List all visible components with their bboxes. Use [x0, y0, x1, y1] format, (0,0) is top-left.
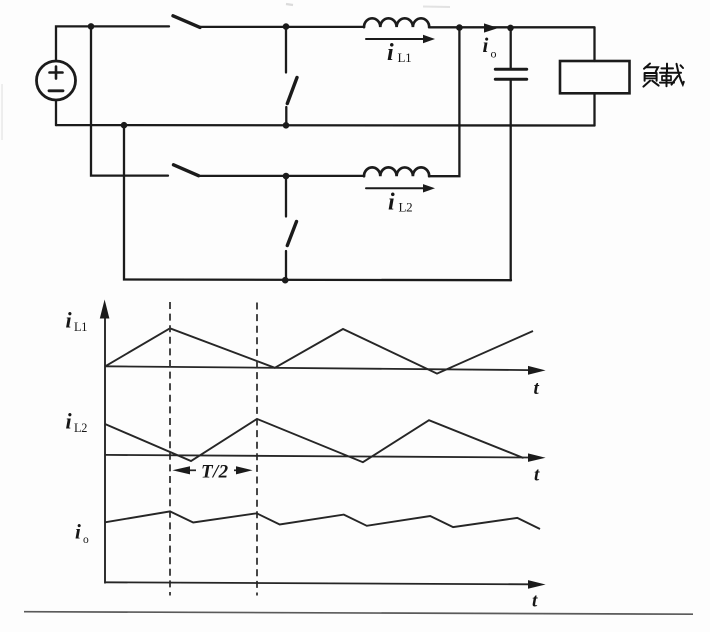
wire L2 to node B — [429, 27, 459, 176]
axis t iL2 — [105, 453, 546, 462]
inductor L2 — [364, 167, 429, 176]
wire L1 to output node — [429, 26, 595, 28]
axis t io — [105, 580, 546, 589]
label iL2 — [388, 190, 412, 216]
svg-text:o: o — [491, 47, 497, 61]
waveform iL2 — [105, 419, 524, 462]
svg-text:i: i — [66, 409, 73, 434]
wire phase2 feed — [91, 26, 168, 175]
wire down to load — [593, 28, 595, 61]
node B — [456, 24, 463, 31]
wire S3 to L2 — [199, 175, 365, 177]
svg-text:i: i — [75, 520, 81, 544]
label 负载 — [643, 64, 683, 87]
label iL1 — [387, 40, 411, 66]
wire phase2 return — [124, 125, 511, 280]
label io axis — [75, 520, 89, 547]
svg-text:o: o — [83, 534, 89, 546]
switch S4 phase-2 shunt — [282, 173, 297, 284]
label iL2 axis — [66, 409, 88, 436]
waveform section — [66, 300, 546, 612]
smudge top a — [286, 4, 293, 5]
node D output junction — [507, 25, 514, 32]
switch S2 phase-1 shunt — [283, 23, 297, 128]
wire load bottom — [593, 94, 595, 126]
inductor L1 — [364, 18, 429, 27]
load box — [560, 61, 630, 93]
page separator line — [24, 612, 693, 615]
wire source top to rail — [56, 26, 169, 61]
svg-text:i: i — [483, 33, 489, 57]
capacitor C — [495, 28, 526, 280]
svg-text:L2: L2 — [399, 200, 413, 215]
axis t iL1 — [105, 366, 546, 375]
dashed line 1 — [169, 302, 171, 596]
switch S3 — [174, 165, 199, 176]
smudge left edge — [1, 84, 3, 140]
waveform io — [105, 511, 540, 529]
svg-text:T/2: T/2 — [201, 462, 229, 483]
dashed line 2 — [256, 303, 258, 596]
axis vertical common — [100, 300, 110, 584]
annotation T/2 — [172, 462, 252, 483]
svg-text:L1: L1 — [398, 50, 412, 65]
svg-text:t: t — [534, 378, 540, 399]
svg-text:i: i — [66, 308, 73, 333]
svg-text:L2: L2 — [74, 421, 87, 435]
label iL1 axis — [66, 308, 88, 335]
switch S1 — [173, 16, 200, 28]
wire S1 to L1 — [200, 26, 364, 28]
arrow iL2 — [366, 184, 435, 192]
waveform iL1 — [105, 328, 533, 373]
svg-text:t: t — [532, 591, 538, 612]
smudge top b — [423, 6, 450, 9]
svg-text:L1: L1 — [74, 320, 87, 334]
svg-text:i: i — [387, 40, 394, 66]
voltage source V1 — [37, 61, 76, 100]
arrow iL1 — [366, 35, 435, 43]
wire return rail — [56, 124, 595, 127]
node C return junction — [121, 122, 128, 129]
node A top-left junction — [88, 23, 95, 30]
svg-text:t: t — [534, 465, 540, 486]
wire source bottom — [55, 101, 57, 126]
arrow io — [474, 23, 498, 32]
label io — [483, 33, 497, 61]
svg-text:i: i — [388, 190, 395, 216]
